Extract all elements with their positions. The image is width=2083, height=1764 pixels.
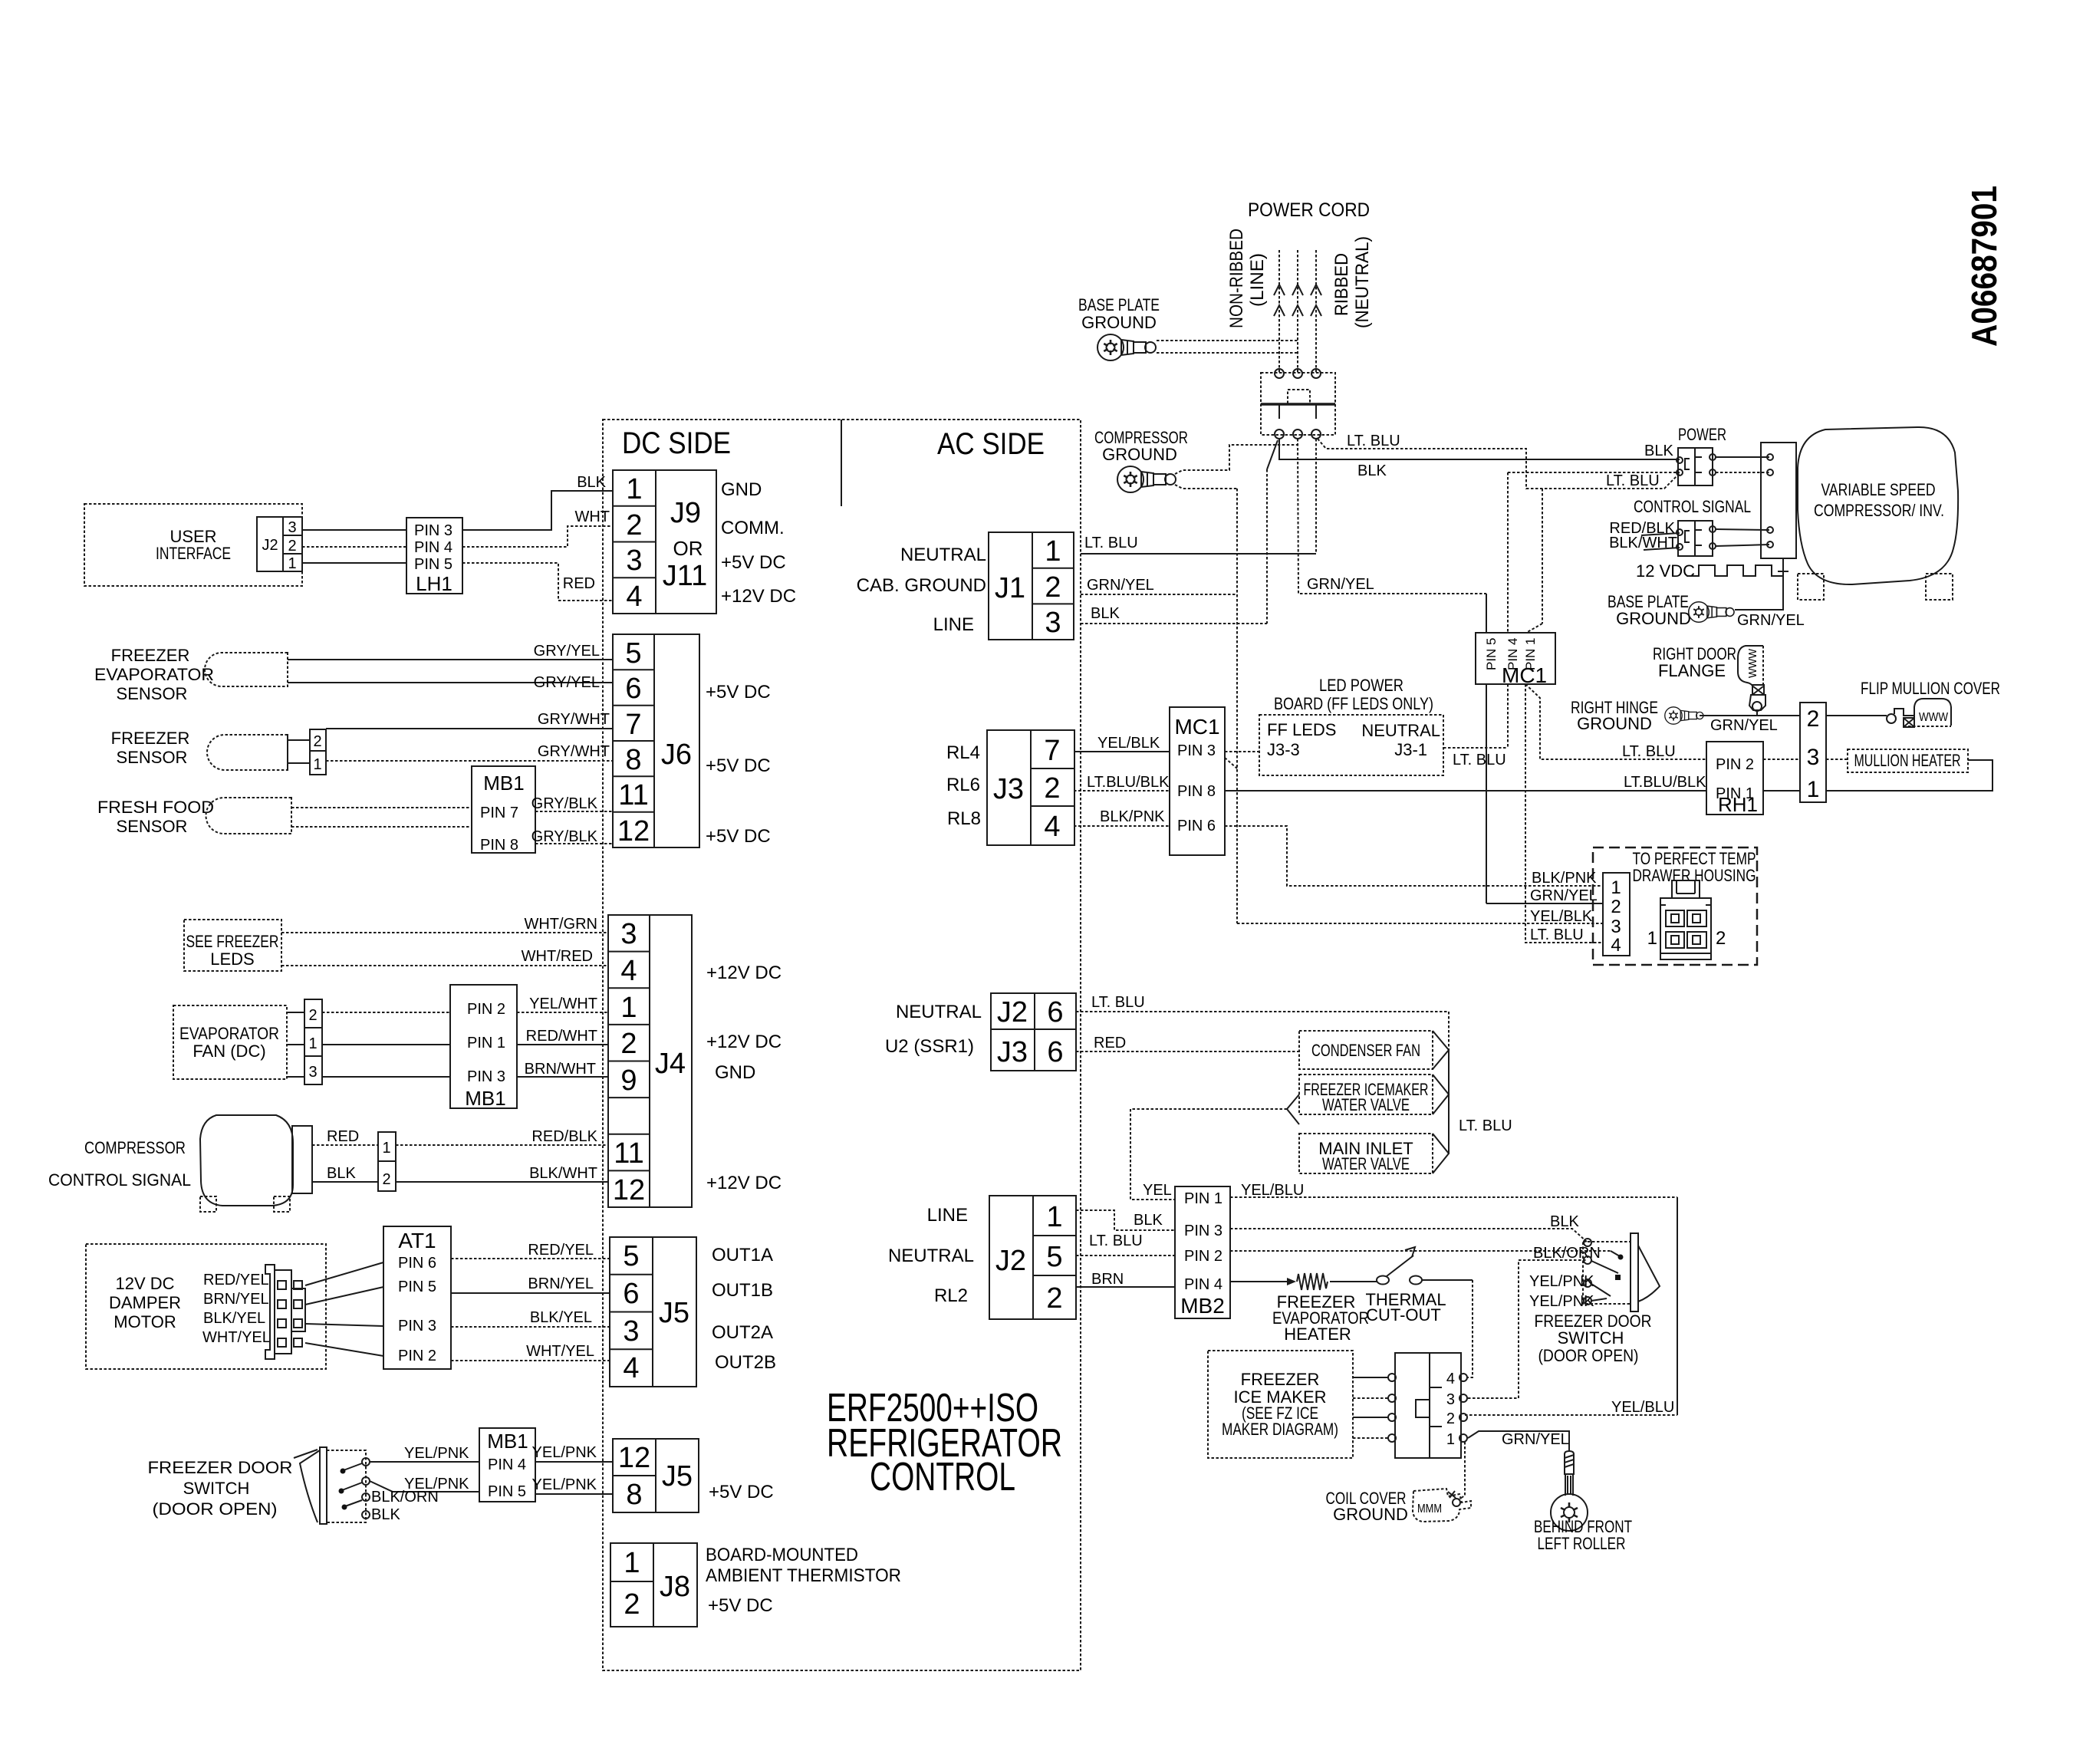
wire YEL/PNK MB1 to J5-12 <box>532 1444 613 1462</box>
svg-text:WHT/YEL: WHT/YEL <box>202 1329 271 1346</box>
svg-text:3: 3 <box>288 519 296 536</box>
wire LT.BLU LED board J3-1 to MC1 pin4 <box>1443 684 1508 768</box>
svg-text:POWER CORD: POWER CORD <box>1248 199 1370 221</box>
svg-text:DAMPER: DAMPER <box>109 1293 181 1312</box>
svg-text:12: 12 <box>617 815 650 847</box>
label COMPRESSOR GROUND <box>1094 428 1188 464</box>
wire BRN J2-2 to MB2 pin4 <box>1076 1271 1175 1288</box>
svg-text:1: 1 <box>624 1547 640 1579</box>
label RIBBED (NEUTRAL) <box>1331 236 1373 328</box>
svg-text:WWW: WWW <box>1919 711 1949 724</box>
see freezer leds box <box>184 920 281 971</box>
svg-text:FREEZER DOOR: FREEZER DOOR <box>148 1458 293 1477</box>
wire fresh food to MB1 pin8 <box>291 826 472 828</box>
right hinge ground lug <box>1665 707 1703 724</box>
svg-text:NEUTRAL: NEUTRAL <box>896 1002 982 1022</box>
svg-text:BLK: BLK <box>1091 605 1120 622</box>
svg-text:PIN 1: PIN 1 <box>467 1035 505 1051</box>
vertical wire GRN/YEL trunk x1613 <box>1236 489 1238 923</box>
svg-text:AT1: AT1 <box>398 1229 436 1252</box>
wire thermal cutout down to ice maker pin4 <box>1468 1280 1473 1377</box>
svg-text:WHT/RED: WHT/RED <box>522 948 593 965</box>
wire WHT/RED to J4-4 <box>281 948 608 966</box>
svg-text:SENSOR: SENSOR <box>117 817 188 836</box>
wires POWER relay to inverter <box>1716 457 1769 472</box>
svg-text:CUT-OUT: CUT-OUT <box>1366 1305 1441 1325</box>
svg-text:GROUND: GROUND <box>1333 1505 1408 1524</box>
connector AT1 <box>383 1226 451 1369</box>
connector J3 <box>987 730 1074 845</box>
right door flange icon <box>1738 646 1765 716</box>
svg-text:PIN 3: PIN 3 <box>398 1318 436 1335</box>
wire mullion heater return to connector pin1 <box>1826 760 1993 791</box>
svg-text:WWW: WWW <box>1746 648 1759 678</box>
svg-text:7: 7 <box>1044 735 1060 767</box>
DC/AC divider line <box>841 420 842 506</box>
POWER relay contact box <box>1677 448 1716 485</box>
wire RED/BLK to J4-11 <box>396 1128 608 1145</box>
svg-text:PIN 3: PIN 3 <box>1184 1223 1222 1239</box>
svg-text:MB1: MB1 <box>465 1087 505 1110</box>
wire BLK/PNK J3-4 to MC1 pin6 <box>1074 808 1170 826</box>
svg-text:MC1: MC1 <box>1502 663 1547 687</box>
svg-text:1: 1 <box>288 555 296 572</box>
wire connector pin3 to mullion heater <box>1826 759 1848 760</box>
svg-text:YEL/PNK: YEL/PNK <box>532 1444 597 1461</box>
svg-text:J3-1: J3-1 <box>1394 740 1427 759</box>
svg-text:2: 2 <box>1045 571 1061 604</box>
svg-text:+12V DC: +12V DC <box>706 1173 782 1193</box>
base plate ground lug (inverter) <box>1689 602 1734 623</box>
wire GRY/WHT to J6-8 <box>326 743 613 761</box>
wire BLK compressor <box>312 1165 378 1182</box>
svg-text:GROUND: GROUND <box>1102 445 1177 464</box>
wire YEL/PNK MB1 to J5-8 <box>532 1476 613 1494</box>
svg-text:PIN 3: PIN 3 <box>1177 742 1216 759</box>
svg-text:5: 5 <box>1046 1241 1062 1273</box>
svg-text:NON-RIBBED: NON-RIBBED <box>1226 229 1247 328</box>
svg-text:PIN 6: PIN 6 <box>1177 818 1216 834</box>
wire BLK/WHT to J4-12 <box>396 1165 608 1182</box>
svg-text:INTERFACE: INTERFACE <box>156 544 231 563</box>
svg-text:J5: J5 <box>662 1460 693 1492</box>
wires base plate ground to power cord <box>1157 341 1298 353</box>
svg-text:1: 1 <box>1046 1201 1062 1233</box>
svg-text:AMBIENT THERMISTOR: AMBIENT THERMISTOR <box>706 1565 901 1586</box>
wire BRN/YEL to J5-6 <box>451 1275 610 1293</box>
svg-text:RL6: RL6 <box>946 775 980 795</box>
control board ERF2500 outline <box>603 420 1081 1670</box>
svg-text:BOARD-MOUNTED: BOARD-MOUNTED <box>706 1545 858 1565</box>
svg-text:4: 4 <box>620 955 637 987</box>
wire YEL/WHT to J4-1 <box>517 996 608 1012</box>
J5b label +5V DC <box>709 1482 774 1502</box>
svg-text:BLK/PNK: BLK/PNK <box>1100 808 1165 825</box>
label YEL/PNK door switch t4 <box>1529 1293 1594 1310</box>
label FLIP MULLION COVER <box>1861 679 2000 698</box>
svg-text:J2: J2 <box>997 996 1028 1028</box>
svg-text:2: 2 <box>620 1028 637 1060</box>
wire LT.BLU J2-5 to MB2 pin2 <box>1076 1232 1175 1256</box>
J8 labels <box>706 1545 901 1616</box>
svg-text:BRN/WHT: BRN/WHT <box>525 1061 596 1078</box>
wire fan 3 to MB1 <box>322 1076 450 1078</box>
label RED/BLK with lead <box>1609 520 1680 537</box>
wire GRN/YEL inverter to base plate ground <box>1735 558 1805 629</box>
svg-text:EVAPORATOR: EVAPORATOR <box>179 1024 279 1043</box>
svg-text:3: 3 <box>623 1315 639 1348</box>
svg-text:GRY/WHT: GRY/WHT <box>538 711 610 728</box>
svg-text:PIN 4: PIN 4 <box>414 539 452 556</box>
damper motor box <box>86 1244 326 1369</box>
svg-text:CONDENSER FAN: CONDENSER FAN <box>1311 1041 1420 1060</box>
svg-text:J9: J9 <box>670 497 701 529</box>
main inlet water valve box <box>1299 1134 1433 1173</box>
svg-text:MB1: MB1 <box>487 1430 528 1453</box>
wires CONTROL relay to inverter <box>1716 529 1769 546</box>
svg-text:CAB. GROUND: CAB. GROUND <box>857 575 986 596</box>
label 12 VDC <box>1636 561 1695 581</box>
wire WHT/GRN to J4-3 <box>281 916 608 933</box>
svg-text:2: 2 <box>1044 772 1060 805</box>
svg-text:MULLION HEATER: MULLION HEATER <box>1854 751 1961 770</box>
label POWER CORD <box>1248 199 1370 221</box>
svg-text:FREEZER: FREEZER <box>111 646 190 665</box>
J1 labels NEUTRAL CAB GROUND LINE <box>857 545 986 635</box>
svg-text:RL8: RL8 <box>947 808 981 829</box>
svg-text:6: 6 <box>623 1278 639 1310</box>
svg-text:3: 3 <box>1446 1391 1455 1408</box>
wire YEL/PNK doorswitch to MB1 pin5 <box>370 1476 479 1492</box>
svg-text:7: 7 <box>625 709 641 741</box>
wire BLK/YEL to J5-3 <box>451 1309 610 1327</box>
wire BRN/WHT to J4-9 <box>517 1061 608 1078</box>
wire YEL/BLK J3-7 to MC1 pin3 <box>1074 735 1170 752</box>
wire fan 1 to MB1 <box>322 1044 450 1045</box>
svg-text:RED/YEL: RED/YEL <box>203 1272 269 1288</box>
wire GRY/YEL to J6-5 <box>288 643 613 660</box>
wire RED/YEL to J5-5 <box>451 1242 610 1259</box>
connector J5 <box>610 1237 696 1387</box>
svg-text:BLK: BLK <box>577 474 606 491</box>
wire WHT/YEL to J5-4 <box>451 1343 610 1361</box>
svg-text:J2: J2 <box>995 1245 1026 1277</box>
connector MB1 (door switch) <box>479 1428 535 1502</box>
svg-text:+5V DC: +5V DC <box>708 1595 773 1616</box>
svg-text:PIN 3: PIN 3 <box>467 1068 505 1085</box>
perfect temp wire labels column <box>1530 870 1598 943</box>
svg-text:RIBBED: RIBBED <box>1331 253 1352 316</box>
svg-text:PIN 5: PIN 5 <box>1484 637 1499 670</box>
svg-text:NEUTRAL: NEUTRAL <box>1361 721 1440 740</box>
svg-text:1: 1 <box>313 756 321 773</box>
svg-text:YEL/WHT: YEL/WHT <box>529 996 597 1012</box>
svg-text:3: 3 <box>1611 917 1621 937</box>
connector J5 second (12/8) <box>613 1439 699 1512</box>
wire fan 2 to MB1 <box>322 1012 450 1013</box>
J5 pin labels OUT <box>712 1245 776 1373</box>
CONTROL SIGNAL relay box <box>1677 521 1716 556</box>
freezer icemaker water valve box <box>1299 1075 1433 1114</box>
freezer sensor 2/1 connector <box>288 729 326 775</box>
svg-text:EVAPORATOR: EVAPORATOR <box>94 665 214 684</box>
svg-text:GRN/YEL: GRN/YEL <box>1502 1431 1569 1448</box>
connector MC1 (relay side) <box>1170 707 1225 855</box>
svg-text:BLK: BLK <box>1357 462 1387 479</box>
svg-text:SENSOR: SENSOR <box>117 684 188 703</box>
svg-text:6: 6 <box>1047 996 1063 1028</box>
svg-text:J4: J4 <box>655 1048 686 1080</box>
svg-text:12V DC: 12V DC <box>115 1274 174 1293</box>
svg-text:PIN 2: PIN 2 <box>1716 756 1754 773</box>
connector RH1 <box>1706 742 1763 816</box>
svg-text:SENSOR: SENSOR <box>117 748 188 767</box>
svg-text:YEL/BLK: YEL/BLK <box>1530 908 1593 925</box>
LT.BLU bracket chain right of boxes <box>1433 1031 1512 1173</box>
svg-text:6: 6 <box>1047 1036 1063 1068</box>
svg-text:BLK/ORN: BLK/ORN <box>1533 1245 1601 1262</box>
wire BLK power cord to J1-3 LINE <box>1081 440 1278 624</box>
svg-text:BLK: BLK <box>371 1506 400 1523</box>
label compressor control signal <box>48 1138 191 1190</box>
wire GRY/WHT to J6-7 <box>326 711 613 729</box>
connector J2 on user interface <box>257 517 302 572</box>
wire LT.BLU power cord to POWER relay <box>1318 433 1680 489</box>
svg-text:LT. BLU: LT. BLU <box>1622 743 1676 760</box>
svg-text:J1: J1 <box>995 572 1025 604</box>
svg-text:8: 8 <box>626 1479 642 1511</box>
freezer ice maker box <box>1208 1351 1353 1458</box>
label coil cover ground <box>1326 1489 1408 1524</box>
svg-text:MC1: MC1 <box>1174 715 1219 739</box>
svg-text:COMPRESSOR: COMPRESSOR <box>84 1138 186 1157</box>
svg-text:YEL: YEL <box>1143 1182 1172 1199</box>
coil cover ground icon <box>1413 1489 1471 1522</box>
wire GRN/YEL power cord to MC1 pin5 <box>1298 439 1486 633</box>
svg-text:PIN 4: PIN 4 <box>488 1456 526 1473</box>
mullion heater box <box>1848 749 1968 772</box>
svg-text:CONTROL SIGNAL: CONTROL SIGNAL <box>1634 497 1751 516</box>
wire GRN/YEL ice maker pin1 to roller lamp <box>1468 1431 1569 1452</box>
wire GRY/BLK to J6-11 <box>531 795 613 812</box>
svg-text:FREEZER: FREEZER <box>1241 1370 1320 1389</box>
label BLK/WHT with lead <box>1609 535 1680 551</box>
svg-text:2: 2 <box>313 733 321 750</box>
wire MC1 pin5 to perfect temp GRN/YEL <box>1486 684 1603 903</box>
wire RED compressor <box>312 1128 378 1145</box>
svg-text:GRN/YEL: GRN/YEL <box>1087 577 1154 594</box>
svg-text:2: 2 <box>1807 706 1820 732</box>
svg-text:GRN/YEL: GRN/YEL <box>1307 576 1374 593</box>
svg-text:12 VDC: 12 VDC <box>1636 561 1695 581</box>
label freezer evaporator sensor <box>94 646 214 703</box>
svg-text:BLK/YEL: BLK/YEL <box>203 1310 265 1327</box>
freezer door switch icon (right) <box>1583 1233 1660 1311</box>
svg-text:3: 3 <box>1807 745 1820 770</box>
svg-text:RED: RED <box>1094 1035 1126 1051</box>
YEL bracket left of valve boxes <box>1130 1094 1299 1200</box>
svg-text:BRN/YEL: BRN/YEL <box>528 1275 594 1292</box>
svg-text:MB2: MB2 <box>1180 1294 1225 1318</box>
connector J4 <box>608 915 692 1207</box>
evaporator fan 2/1/3 connector <box>287 999 322 1084</box>
svg-text:RED/WHT: RED/WHT <box>526 1028 597 1045</box>
svg-text:MAKER DIAGRAM): MAKER DIAGRAM) <box>1222 1420 1338 1439</box>
svg-text:2: 2 <box>1046 1282 1062 1315</box>
svg-text:CONTROL: CONTROL <box>870 1455 1015 1499</box>
connector LH1 <box>406 518 462 595</box>
svg-text:OUT2A: OUT2A <box>712 1322 773 1343</box>
svg-text:11: 11 <box>618 779 648 811</box>
compressor 1/2 pin box <box>378 1132 396 1191</box>
svg-text:GRY/BLK: GRY/BLK <box>531 795 598 812</box>
svg-text:WHT/YEL: WHT/YEL <box>526 1343 594 1360</box>
svg-text:PIN 8: PIN 8 <box>1177 783 1216 800</box>
connector MC1 (top) <box>1476 633 1555 687</box>
svg-text:J5: J5 <box>659 1297 689 1329</box>
label fresh food sensor <box>97 798 214 836</box>
wire MC1 pin8 to RH1 pin1 LT.BLU/BLK <box>1225 774 1706 791</box>
wire MB2 pin4 to heater <box>1230 1278 1296 1285</box>
svg-text:+5V DC: +5V DC <box>706 755 771 776</box>
svg-text:LEDS: LEDS <box>210 949 254 969</box>
svg-text:4: 4 <box>626 581 642 613</box>
perfect temp drawer housing dashed box <box>1593 847 1757 965</box>
svg-text:+5V DC: +5V DC <box>706 826 771 847</box>
svg-text:J2: J2 <box>262 537 278 554</box>
svg-text:OUT1B: OUT1B <box>712 1280 773 1301</box>
wire MC1 pin6 to perfect temp BLK/PNK <box>1225 826 1603 886</box>
svg-text:GRY/YEL: GRY/YEL <box>534 643 600 660</box>
label RIGHT DOOR FLANGE <box>1653 644 1736 680</box>
svg-text:WATER VALVE: WATER VALVE <box>1322 1154 1410 1173</box>
svg-text:GRN/YEL: GRN/YEL <box>1530 887 1598 904</box>
J6 pin labels +5V DC x3 <box>706 682 771 847</box>
svg-text:3: 3 <box>1045 607 1061 639</box>
svg-text:AC SIDE: AC SIDE <box>937 427 1045 461</box>
label YEL/PNK door switch t3 <box>1529 1273 1594 1290</box>
svg-text:RED/YEL: RED/YEL <box>528 1242 594 1259</box>
damper motor header icon <box>265 1265 305 1359</box>
svg-text:+12V DC: +12V DC <box>706 1032 782 1052</box>
svg-text:LT. BLU: LT. BLU <box>1530 926 1584 943</box>
svg-text:LT. BLU: LT. BLU <box>1091 994 1145 1011</box>
roller lamp bulb <box>1551 1451 1588 1531</box>
svg-text:NEUTRAL: NEUTRAL <box>900 545 986 565</box>
svg-text:RL4: RL4 <box>946 742 980 763</box>
connector J6 <box>613 634 699 847</box>
svg-text:DC SIDE: DC SIDE <box>622 426 731 460</box>
label behind front left roller <box>1534 1517 1632 1553</box>
svg-text:+12V DC: +12V DC <box>706 963 782 983</box>
wire RED J3-6 to condenser fan <box>1076 1035 1299 1051</box>
compressor ground lug <box>1117 466 1176 492</box>
svg-text:FREEZER: FREEZER <box>111 729 190 748</box>
svg-text:SWITCH: SWITCH <box>183 1479 250 1498</box>
condenser fan box <box>1299 1031 1433 1069</box>
svg-text:LINE: LINE <box>927 1205 968 1226</box>
compressor blob (control signal) <box>200 1115 293 1212</box>
svg-text:BOARD (FF LEDS ONLY): BOARD (FF LEDS ONLY) <box>1274 694 1433 713</box>
svg-text:COMM.: COMM. <box>721 518 785 538</box>
freezer door switch icon (left) <box>294 1447 370 1524</box>
svg-text:3: 3 <box>308 1064 317 1081</box>
svg-text:GROUND: GROUND <box>1577 714 1652 733</box>
connector J1 <box>989 532 1074 640</box>
svg-text:FRESH FOOD: FRESH FOOD <box>97 798 214 817</box>
svg-text:LT. BLU: LT. BLU <box>1453 752 1506 768</box>
connector MB2 <box>1175 1186 1230 1318</box>
svg-text:2: 2 <box>624 1588 640 1621</box>
svg-text:5: 5 <box>625 637 641 670</box>
svg-text:BLK/WHT: BLK/WHT <box>529 1165 597 1182</box>
svg-text:BASE PLATE: BASE PLATE <box>1078 295 1160 314</box>
wire MC1 pin3 to LED board J3-3 <box>1225 752 1259 768</box>
svg-text:2: 2 <box>1446 1410 1455 1427</box>
svg-text:1: 1 <box>620 992 637 1024</box>
wire J2-2 to LH1 pin4 <box>302 546 406 548</box>
svg-text:12: 12 <box>613 1174 645 1206</box>
svg-text:(NEUTRAL): (NEUTRAL) <box>1352 236 1373 328</box>
svg-text:1: 1 <box>308 1035 317 1052</box>
svg-text:LT. BLU: LT. BLU <box>1606 472 1660 489</box>
svg-text:FAN (DC): FAN (DC) <box>193 1042 265 1061</box>
label BASE PLATE GROUND (inverter) <box>1607 592 1691 628</box>
LED power board box <box>1259 715 1443 775</box>
svg-text:MB1: MB1 <box>483 772 524 795</box>
svg-text:PIN 4: PIN 4 <box>1184 1276 1222 1293</box>
svg-text:4: 4 <box>1044 811 1060 843</box>
label freezer evaporator heater <box>1272 1292 1369 1344</box>
svg-text:GRY/WHT: GRY/WHT <box>538 743 610 760</box>
svg-text:2: 2 <box>1716 928 1726 949</box>
svg-text:1: 1 <box>1611 877 1621 898</box>
svg-text:(DOOR OPEN): (DOOR OPEN) <box>1538 1346 1639 1365</box>
connector 2/3/1 (mullion) <box>1800 703 1826 802</box>
svg-text:GROUND: GROUND <box>1616 609 1691 628</box>
svg-text:PIN 3: PIN 3 <box>414 522 452 539</box>
svg-text:11: 11 <box>614 1137 643 1170</box>
svg-text:2: 2 <box>626 509 642 541</box>
svg-text:FLIP MULLION COVER: FLIP MULLION COVER <box>1861 679 2000 698</box>
inverter terminal strip <box>1761 443 1796 558</box>
fresh food sensor bullet <box>206 798 292 834</box>
svg-text:YEL/BLK: YEL/BLK <box>1097 735 1160 752</box>
svg-text:5: 5 <box>623 1240 639 1272</box>
connector MB1 (fan) <box>450 985 517 1110</box>
svg-text:BLK/YEL: BLK/YEL <box>530 1309 592 1326</box>
svg-text:BLK: BLK <box>1644 443 1673 459</box>
base plate ground lug <box>1097 334 1156 360</box>
svg-text:1: 1 <box>1446 1431 1455 1448</box>
svg-text:+12V DC: +12V DC <box>721 586 796 607</box>
connector J9/J11 <box>613 470 716 614</box>
wire RED LH1 to J9-4 <box>462 563 613 601</box>
connector J2-6 / J3-6 <box>991 993 1076 1071</box>
svg-text:2: 2 <box>288 538 296 555</box>
svg-text:MOTOR: MOTOR <box>114 1312 176 1331</box>
svg-text:MMM: MMM <box>1417 1502 1442 1516</box>
perfect temp connector 1-4 <box>1603 873 1630 956</box>
svg-text:BRN/YEL: BRN/YEL <box>203 1291 269 1308</box>
power cord terminal block <box>1261 369 1335 439</box>
svg-text:BLK/PNK: BLK/PNK <box>1532 870 1597 887</box>
wire MB2 pin2 to door switch <box>1230 1250 1611 1252</box>
wire YEL/BLU MB2 pin1 loop to ice maker <box>1230 1182 1677 1416</box>
svg-text:9: 9 <box>620 1065 637 1097</box>
label freezer door switch (left) <box>148 1458 293 1519</box>
wire MC1 pin4 to POWER relay <box>1508 472 1680 633</box>
